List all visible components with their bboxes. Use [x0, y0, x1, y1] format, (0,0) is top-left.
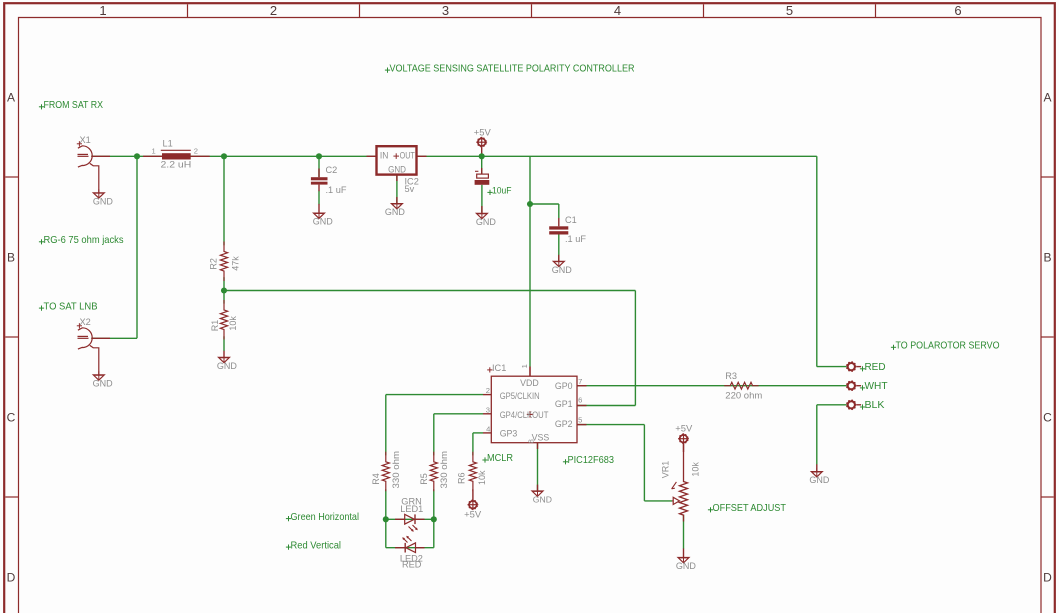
LED LED2 red: [395, 536, 425, 570]
svg-text:4: 4: [486, 425, 490, 434]
frame column tick: [703, 4, 705, 17]
svg-text:R4: R4: [371, 473, 381, 485]
svg-text:10k: 10k: [690, 462, 700, 477]
svg-text:3: 3: [486, 405, 490, 414]
svg-text:1: 1: [152, 147, 156, 156]
svg-text:R6: R6: [457, 472, 467, 484]
wire down to R5: [433, 414, 435, 456]
svg-text:TO POLAROTOR SERVO: TO POLAROTOR SERVO: [896, 341, 1000, 352]
node C2 junction: [316, 153, 322, 159]
label TO POLAROTOR SERVO: [891, 341, 1000, 352]
node X1 junction: [134, 153, 140, 159]
wire +5V to VR1: [683, 443, 685, 474]
svg-text:1: 1: [99, 3, 106, 18]
wire VR1 to ground: [683, 515, 685, 549]
ground for C2: [313, 210, 334, 227]
potentiometer VR1: [661, 461, 701, 522]
svg-text:.1 uF: .1 uF: [565, 234, 586, 244]
svg-text:L1: L1: [163, 138, 173, 148]
svg-text:RG-6 75 ohm jacks: RG-6 75 ohm jacks: [44, 235, 124, 246]
svg-text:GND: GND: [809, 475, 830, 485]
svg-text:8: 8: [526, 439, 535, 443]
svg-text:B: B: [1043, 251, 1051, 265]
svg-text:C: C: [7, 411, 16, 425]
label R6 value: [457, 470, 487, 485]
wire X2 pin: [91, 337, 137, 339]
wire GP4 pin: [434, 413, 483, 415]
label Green Horizontal: [286, 512, 359, 523]
wire LED loop right: [433, 519, 435, 547]
svg-text:1: 1: [520, 364, 529, 368]
wire GP5 pin: [386, 394, 483, 396]
label WHT: [860, 381, 888, 392]
node divider junction: [221, 287, 227, 293]
svg-text:+5V: +5V: [474, 127, 492, 137]
+5V supply for VR1: [675, 424, 693, 444]
capacitor C1: [549, 215, 586, 244]
ground for X2: [93, 371, 114, 388]
ground for C3: [476, 210, 497, 227]
svg-text:X2: X2: [80, 317, 91, 327]
svg-text:R5: R5: [419, 473, 429, 485]
wire GP2 down to VR1: [643, 425, 645, 501]
frame row letter B left: [7, 251, 15, 265]
svg-text:WHT: WHT: [865, 381, 888, 392]
svg-text:5v: 5v: [405, 184, 415, 194]
resistor R4: [382, 452, 389, 492]
svg-text:330 ohm: 330 ohm: [439, 451, 449, 489]
svg-text:A: A: [7, 91, 15, 105]
frame column tick: [187, 4, 189, 17]
wire main rail right: [417, 155, 817, 157]
svg-text:GP3: GP3: [500, 428, 518, 438]
svg-text:X1: X1: [80, 135, 91, 145]
wire LED loop left: [385, 519, 387, 547]
pad RED: [846, 361, 861, 372]
svg-text:220 ohm: 220 ohm: [725, 390, 762, 400]
wire rail to C3: [481, 156, 483, 174]
svg-text:TO SAT LNB: TO SAT LNB: [44, 301, 98, 312]
svg-text:GND: GND: [217, 361, 238, 371]
pad BLK: [846, 399, 861, 410]
wire R1 to ground: [223, 336, 225, 351]
pad WHT: [846, 380, 861, 391]
svg-text:B: B: [7, 251, 15, 265]
ground for C1: [552, 258, 573, 275]
frame row letter B right: [1043, 251, 1051, 265]
svg-text:+5V: +5V: [464, 510, 482, 520]
frame row tick left: [5, 336, 18, 338]
svg-text:MCLR: MCLR: [487, 453, 513, 464]
svg-text:2.2 uH: 2.2 uH: [161, 159, 192, 169]
node C1 branch junction: [527, 201, 533, 207]
svg-text:2: 2: [486, 386, 490, 395]
frame row letter D left: [7, 571, 16, 585]
label RED: [860, 362, 886, 373]
svg-text:PIC12F683: PIC12F683: [568, 455, 615, 466]
wire C2 to ground: [318, 191, 320, 205]
wire C1 top lead: [558, 204, 560, 218]
frame row letter A left: [7, 91, 15, 105]
svg-text:GP5/CLKIN: GP5/CLKIN: [500, 391, 540, 401]
resistor R3: [724, 371, 762, 400]
node R2 junction: [221, 153, 227, 159]
capacitor C2: [311, 165, 347, 195]
svg-text:GND: GND: [385, 207, 406, 217]
IC1 pin numbers: [486, 377, 583, 444]
svg-text:.1 uF: .1 uF: [326, 185, 347, 195]
wire down to R4: [385, 395, 387, 456]
wire LED2 row: [386, 547, 434, 549]
wire LED1 row: [386, 518, 434, 520]
frame column number 6: [954, 3, 961, 18]
wire GP1 pin: [577, 405, 635, 407]
svg-text:C: C: [1043, 411, 1052, 425]
svg-text:GP2: GP2: [555, 419, 573, 429]
svg-text:VOLTAGE SENSING SATELLITE POLA: VOLTAGE SENSING SATELLITE POLARITY CONTR…: [390, 63, 635, 74]
svg-text:A: A: [1043, 91, 1051, 105]
wire R6 to +5V: [472, 489, 474, 500]
svg-text:7: 7: [578, 377, 582, 386]
frame column number 5: [786, 3, 793, 18]
label FROM SAT RX: [39, 100, 103, 111]
svg-text:D: D: [1043, 571, 1052, 585]
wire GP0 to WHT pad: [577, 385, 847, 387]
wire C3 to ground: [481, 185, 483, 213]
svg-text:10k: 10k: [477, 470, 487, 485]
wire GP2 pin: [577, 424, 644, 426]
label R2 value: [209, 256, 241, 271]
wire VSS to ground: [537, 443, 539, 491]
label R5 value: [419, 451, 449, 489]
frame column number 3: [442, 3, 449, 18]
svg-text:GND: GND: [93, 196, 114, 206]
frame row tick right: [1041, 496, 1054, 498]
wire rail to C2: [318, 156, 320, 177]
frame column number 2: [270, 3, 277, 18]
resistor R2: [220, 242, 227, 282]
wire rail to R2: [223, 156, 225, 245]
ground for R1: [217, 354, 238, 371]
svg-text:VDD: VDD: [520, 378, 539, 388]
svg-text:R1: R1: [210, 320, 220, 332]
svg-text:10uF: 10uF: [492, 185, 512, 196]
svg-text:Green Horizontal: Green Horizontal: [291, 512, 360, 523]
frame column tick: [531, 4, 533, 17]
node LED left junction: [383, 516, 389, 522]
ground for VR1: [676, 554, 697, 571]
svg-text:RED: RED: [865, 362, 886, 373]
svg-text:2: 2: [270, 3, 277, 18]
svg-text:D: D: [7, 571, 16, 585]
svg-text:RED: RED: [402, 559, 422, 569]
svg-text:VR1: VR1: [661, 461, 671, 479]
svg-text:GND: GND: [476, 217, 497, 227]
svg-text:C2: C2: [326, 165, 338, 175]
svg-text:GND: GND: [533, 495, 552, 505]
label IC1: [487, 363, 506, 373]
frame column number 1: [99, 3, 106, 18]
resistor R6: [469, 452, 476, 492]
svg-text:330 ohm: 330 ohm: [391, 451, 401, 489]
title text: [385, 63, 635, 74]
wire red pin stubs: [91, 148, 817, 558]
svg-text:10k: 10k: [228, 316, 238, 331]
wire R5 to LED1: [433, 489, 435, 519]
svg-text:C1: C1: [565, 215, 577, 225]
svg-text:OUT: OUT: [400, 151, 416, 161]
frame row tick left: [5, 496, 18, 498]
wire R2 to R1: [223, 277, 225, 303]
label PIC12F683: [563, 455, 614, 466]
svg-text:Red Vertical: Red Vertical: [291, 540, 342, 551]
frame column tick: [359, 4, 361, 17]
svg-text:LED1: LED1: [400, 504, 423, 514]
connector X1: [77, 135, 99, 193]
frame row tick right: [1041, 336, 1054, 338]
wire to BLK pad: [817, 404, 847, 406]
wire IC2 GND pin: [396, 175, 398, 204]
wire C1 to ground: [558, 235, 560, 262]
wire R4 to LED1: [385, 489, 387, 519]
frame row letter C left: [7, 411, 16, 425]
frame column tick: [875, 4, 877, 17]
node +5V junction: [479, 153, 485, 159]
voltage regulator IC2: [377, 146, 419, 194]
svg-text:5: 5: [786, 3, 793, 18]
wire X1 node down to X2: [136, 156, 138, 338]
svg-text:GP1: GP1: [555, 399, 573, 409]
node LED right junction: [431, 516, 437, 522]
label R1 value: [210, 316, 238, 332]
resistor R5: [430, 452, 437, 492]
ground for VSS: [532, 487, 552, 504]
frame row letter D right: [1043, 571, 1052, 585]
label RG-6 75 ohm jacks: [39, 235, 124, 246]
svg-text:+5V: +5V: [675, 424, 693, 434]
wire BLK to ground: [816, 405, 818, 465]
svg-text:5: 5: [578, 416, 582, 425]
label MCLR: [482, 453, 513, 464]
svg-text:GND: GND: [93, 379, 114, 389]
ground for IC2: [385, 200, 406, 217]
+5V supply for R6: [464, 499, 482, 519]
svg-text:6: 6: [954, 3, 961, 18]
svg-text:OFFSET ADJUST: OFFSET ADJUST: [713, 503, 787, 514]
wire to RED pad: [817, 366, 847, 368]
ground for X1: [93, 189, 114, 206]
wire down to R6: [472, 433, 474, 456]
svg-text:GND: GND: [552, 265, 573, 275]
svg-text:FROM SAT RX: FROM SAT RX: [44, 100, 104, 111]
frame row letter A right: [1043, 91, 1051, 105]
capacitor C3 10uF polarized: [475, 171, 490, 185]
wire to VR1 wiper: [644, 500, 672, 502]
wire rail to VDD: [529, 156, 531, 366]
svg-text:GP4/CLKOUT: GP4/CLKOUT: [500, 410, 549, 420]
ground for BLK: [809, 468, 830, 485]
svg-text:6: 6: [578, 395, 582, 404]
label 10uF: [487, 185, 511, 196]
svg-text:GND: GND: [313, 217, 334, 227]
svg-text:R3: R3: [725, 371, 737, 381]
wire rail to RED pad: [816, 156, 818, 366]
frame row letter C right: [1043, 411, 1052, 425]
label OFFSET ADJUST: [708, 503, 786, 514]
svg-text:GP0: GP0: [555, 381, 573, 391]
LED LED1 green: [395, 497, 425, 532]
frame row tick right: [1041, 176, 1054, 178]
connector X2: [77, 317, 99, 375]
wire divider to GP1: [224, 290, 635, 292]
resistor R1: [220, 300, 227, 340]
IC1 pin 1: [520, 364, 530, 376]
label Red Vertical: [286, 540, 341, 551]
+5V supply main: [474, 127, 492, 147]
svg-text:2: 2: [194, 147, 198, 156]
svg-text:47k: 47k: [231, 256, 241, 271]
label BLK: [860, 400, 885, 411]
svg-text:BLK: BLK: [865, 400, 885, 411]
wire down to GP1 pin: [634, 291, 636, 406]
wire main rail left: [91, 155, 376, 157]
svg-text:4: 4: [614, 3, 621, 18]
frame row tick left: [5, 176, 18, 178]
wire GP3 pin: [473, 432, 483, 434]
svg-text:IN: IN: [380, 151, 389, 161]
svg-text:3: 3: [442, 3, 449, 18]
frame column number 4: [614, 3, 621, 18]
wire branch to C1: [530, 203, 559, 205]
svg-text:GND: GND: [388, 164, 406, 174]
svg-text:GND: GND: [676, 561, 697, 571]
svg-text:IC1: IC1: [492, 363, 506, 373]
label R4 value: [371, 451, 401, 489]
label TO SAT LNB: [39, 301, 98, 312]
svg-text:R2: R2: [209, 258, 219, 270]
op-amp IC1 PIC12F683 body: [491, 376, 577, 443]
inductor L1: [152, 138, 199, 169]
